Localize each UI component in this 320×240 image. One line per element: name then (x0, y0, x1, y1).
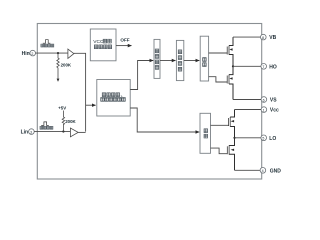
wire Q1 drain to VB (233, 36, 261, 38)
transistor Q4 (low-side output MOSFET lower) (227, 138, 234, 171)
block U5: high-side driver (vertical) (200, 36, 208, 81)
wire latch block output 2 to low-side driver (130, 108, 199, 132)
svg-text:4: 4 (262, 169, 264, 173)
wire Lin input (34, 131, 70, 133)
wire driver U6 to Q3 gate (211, 124, 229, 126)
svg-text:VS: VS (270, 98, 277, 104)
svg-text:200K: 200K (61, 62, 72, 67)
wire HO output (233, 65, 261, 67)
wire Q4 source to GND (235, 169, 261, 171)
svg-text:7: 7 (262, 65, 264, 69)
svg-text:HO: HO (269, 64, 277, 70)
pin 8 VB (261, 34, 267, 40)
wire Q3 drain to Vcc (235, 109, 262, 111)
pin 2 Hin (30, 50, 36, 56)
node HO junction (232, 65, 234, 67)
svg-text:1: 1 (263, 108, 265, 112)
svg-text:5: 5 (262, 137, 264, 141)
svg-text:OFF: OFF (120, 38, 129, 43)
label logic input (Lin) (40, 126, 53, 129)
svg-text:6: 6 (263, 98, 265, 102)
svg-text:Hin: Hin (22, 51, 30, 57)
transistor Q2 (high-side output MOSFET lower) (227, 66, 233, 99)
block U2: latch circuit / dead-time circuit (97, 80, 130, 117)
block U6: low-side driver (vertical) (200, 113, 211, 153)
IC package boundary (37, 24, 261, 180)
wire driver U5 to Q1 gate (209, 52, 228, 54)
svg-text:8: 8 (262, 36, 264, 40)
block U1: VCC undervoltage shutdown protection (90, 29, 116, 61)
block U3: level shift (vertical) (154, 39, 160, 78)
wire A1 output (74, 53, 86, 131)
node Hin junction (57, 52, 59, 54)
svg-text:3: 3 (30, 130, 32, 134)
svg-text:200K: 200K (65, 119, 76, 124)
pin 5 LO (261, 135, 267, 141)
svg-text:VB: VB (269, 35, 276, 41)
svg-text:+5V: +5V (58, 106, 66, 111)
pin 3 Lin (29, 129, 35, 135)
node LO junction (233, 137, 235, 139)
wire Hin input (36, 52, 68, 54)
svg-text:Lin: Lin (21, 130, 29, 136)
pin 6 VS (261, 97, 267, 103)
wire latch block output 1 to level shift (130, 61, 153, 90)
pin 1 Vcc (261, 107, 267, 113)
wire driver U5 to Q2 gate (209, 77, 228, 82)
wire level shift to pulse filter (160, 60, 176, 62)
resistor R2 200K pullup (62, 111, 64, 132)
logic input pulse symbol (Lin) (41, 122, 49, 126)
wire pulse filter to high-side driver (184, 60, 200, 62)
pin 4 GND (260, 168, 266, 174)
svg-text:GND: GND (270, 168, 282, 174)
wire LO output (235, 137, 261, 139)
wire OFF shutdown output arrow (116, 45, 132, 47)
svg-text:LO: LO (269, 136, 276, 142)
svg-text:Vcc: Vcc (270, 108, 279, 114)
pin 7 HO (261, 64, 267, 70)
resistor R1 200K pulldown (57, 53, 60, 82)
wire driver U6 to Q4 gate (211, 148, 228, 154)
label logic input (Hin) (41, 44, 54, 47)
svg-text:2: 2 (31, 52, 33, 56)
buffer A2 (Lin) (70, 128, 78, 137)
node Lin junction (62, 130, 64, 132)
transistor Q1 (high-side output MOSFET upper) (227, 37, 233, 66)
svg-text:VCC: VCC (93, 39, 104, 45)
wire arrow into latch block (86, 104, 96, 106)
buffer A1 (Hin) (68, 49, 74, 58)
wire A2 output (78, 131, 85, 133)
transistor Q3 (low-side output MOSFET upper) (229, 110, 235, 138)
block U4: pulse filter (vertical) (176, 40, 183, 80)
logic input pulse symbol (Hin) (43, 40, 51, 44)
wire Q2 source to VS (233, 99, 261, 101)
